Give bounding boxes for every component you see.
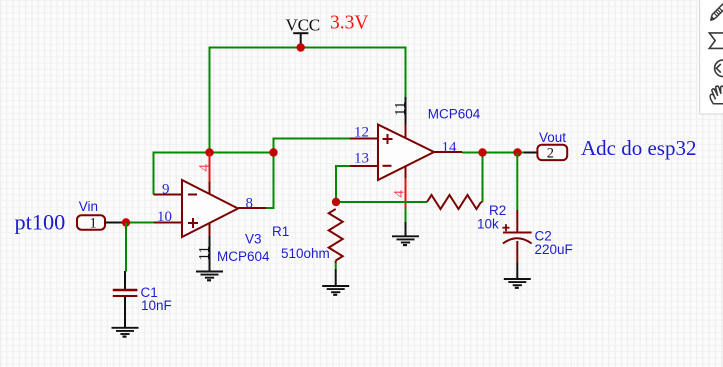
toolbar panel xyxy=(700,0,723,114)
pin 8 stub xyxy=(238,207,266,209)
op-amp U1A triangle xyxy=(182,180,238,237)
svg-text:pt100: pt100 xyxy=(15,210,66,235)
wire node R1 to R2 drawn over pin4 xyxy=(336,201,427,203)
op-amp U1B triangle xyxy=(378,125,434,181)
toolbar icon hand xyxy=(710,86,723,104)
toolbar icon flag xyxy=(709,33,723,49)
wire node to pin10 xyxy=(126,222,154,224)
ground op2 pin4 xyxy=(392,236,419,245)
svg-text:14: 14 xyxy=(442,140,458,156)
wire to pin12 xyxy=(274,139,351,153)
svg-text:R1: R1 xyxy=(272,224,289,239)
ground C1 xyxy=(112,328,139,337)
junction Vin xyxy=(122,218,130,226)
toolbar icon circle-arrow xyxy=(715,60,723,76)
resistor R2 xyxy=(427,195,481,209)
resistor R1 xyxy=(329,209,343,261)
op-amp U1B minus xyxy=(383,165,392,167)
svg-text:510ohm: 510ohm xyxy=(281,246,330,261)
wire R2 to out node xyxy=(482,153,484,203)
wire pin4 op2 to gnd xyxy=(405,222,407,236)
pin 11 stub op1 xyxy=(209,223,211,236)
junction B xyxy=(269,148,277,156)
wire out to port2 xyxy=(524,152,537,154)
pin 4 stub op2 xyxy=(405,167,407,179)
capacitor C2 xyxy=(503,210,532,279)
ground R1 xyxy=(322,286,349,295)
wire down to C1 xyxy=(125,223,127,272)
port pt100 input xyxy=(77,215,105,230)
ground C2 xyxy=(504,279,531,288)
op-amp U1A minus xyxy=(188,194,197,196)
svg-text:VCC: VCC xyxy=(286,15,320,34)
svg-text:3.3V: 3.3V xyxy=(330,13,368,34)
wire down to C2 xyxy=(516,153,518,211)
svg-text:4: 4 xyxy=(392,190,408,198)
capacitor C1 xyxy=(113,271,138,327)
port Vout output xyxy=(537,145,567,160)
pin 10 stub xyxy=(154,222,182,224)
wire pin4 op2 tail xyxy=(405,209,407,223)
pin 14 stub xyxy=(434,151,462,153)
wire output xyxy=(462,152,524,154)
pin 11 stub op2 xyxy=(405,97,407,125)
svg-text:10: 10 xyxy=(157,209,172,225)
svg-text:10k: 10k xyxy=(477,217,499,232)
pin 12 stub xyxy=(350,138,378,140)
op-amp U1B plus xyxy=(383,134,393,144)
ground op1 xyxy=(196,272,223,281)
op-amp U1A plus xyxy=(188,218,198,228)
pin 9 stub xyxy=(154,194,183,196)
junction out1 xyxy=(478,148,486,156)
wire pin13 down xyxy=(336,166,350,202)
pin 4 stub op1 xyxy=(209,153,211,182)
svg-text:Vout: Vout xyxy=(539,130,566,145)
R1 bottom lead xyxy=(335,261,337,264)
wire VCC top rail xyxy=(210,48,406,153)
wire port1 to node xyxy=(105,222,126,224)
svg-text:11: 11 xyxy=(197,246,213,260)
pin 13 stub xyxy=(350,165,378,167)
wire feedback op1 xyxy=(154,153,274,209)
svg-text:9: 9 xyxy=(162,182,170,198)
junction A xyxy=(205,148,213,156)
junction VCC xyxy=(297,43,305,51)
svg-text:13: 13 xyxy=(354,151,369,167)
svg-text:MCP604: MCP604 xyxy=(217,249,270,264)
junction out2 xyxy=(513,148,521,156)
junction R1 xyxy=(332,198,340,206)
svg-text:Adc do esp32: Adc do esp32 xyxy=(581,136,696,160)
svg-text:Vin: Vin xyxy=(79,199,98,214)
svg-text:11: 11 xyxy=(392,102,408,116)
svg-text:V3: V3 xyxy=(245,232,262,247)
toolbar icon pencil xyxy=(711,4,723,20)
R2 right lead up xyxy=(481,201,483,203)
svg-text:220uF: 220uF xyxy=(535,242,573,257)
power flag VCC xyxy=(293,33,308,47)
svg-text:8: 8 xyxy=(246,196,254,212)
svg-text:10nF: 10nF xyxy=(141,298,172,313)
svg-text:MCP604: MCP604 xyxy=(428,107,481,122)
svg-text:12: 12 xyxy=(354,125,369,141)
svg-text:1: 1 xyxy=(90,216,97,232)
svg-text:2: 2 xyxy=(547,146,554,162)
svg-text:4: 4 xyxy=(197,164,213,172)
